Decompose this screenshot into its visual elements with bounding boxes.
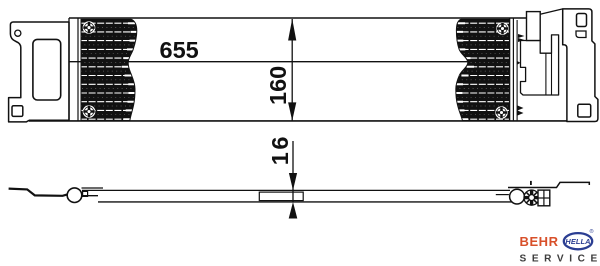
bar bottom edge: [98, 201, 512, 203]
right fin pack outline: [456, 19, 510, 120]
screw bottom-right: [496, 107, 507, 118]
tank inner line: [545, 53, 547, 95]
left fin pack: [80, 19, 138, 122]
grid block: [538, 190, 550, 206]
wire top edge of core: [69, 17, 527, 19]
HELLA ellipse logo: [564, 233, 592, 249]
square hole in bracket: [12, 106, 23, 117]
left mounting bracket: [9, 22, 69, 122]
left end plate: [68, 18, 70, 121]
svg-text:®: ®: [590, 228, 594, 235]
left hook bracket: [9, 189, 69, 196]
small tab: [530, 181, 532, 185]
left fin edge scallops: [122, 23, 138, 119]
arrowhead down: [288, 102, 296, 120]
bar top edge: [82, 189, 510, 191]
weld mark top: [518, 34, 525, 42]
svg-text:BEHR: BEHR: [520, 234, 559, 249]
slot hole: [576, 31, 586, 38]
right plain circle: [510, 189, 525, 204]
left grommet circle: [67, 188, 82, 203]
top square hole: [577, 14, 587, 27]
svg-text:16: 16: [267, 134, 293, 165]
wire diagonal to bracket: [540, 9, 563, 14]
svg-text:SERVICE: SERVICE: [520, 254, 600, 265]
arrowhead down to bar: [289, 173, 297, 190]
big cutout in bracket: [33, 39, 61, 100]
right end plate: [509, 18, 511, 121]
wire middle line of core: [69, 61, 510, 63]
weld mark bottom: [518, 106, 524, 116]
right patterned circle: [524, 190, 539, 205]
arrowhead up: [288, 19, 296, 41]
right fin pack: [453, 19, 511, 122]
top fitting block: [527, 12, 541, 41]
screw top-right: [497, 23, 508, 34]
left fin pack outline: [81, 19, 137, 120]
center clamp rect: [259, 192, 303, 201]
svg-text:655: 655: [160, 37, 199, 63]
bottom square hole: [578, 104, 591, 117]
weld mark mid: [517, 61, 521, 65]
left fitting bits: [82, 187, 104, 189]
svg-text:160: 160: [265, 66, 291, 105]
dimension 16 line: [292, 141, 294, 202]
right top bracket line: [508, 182, 589, 187]
right tank body: [521, 35, 559, 95]
arrowhead up to bar: [289, 202, 298, 219]
tank inner line 2: [551, 53, 553, 95]
right mounting bracket: [563, 9, 598, 122]
right fin edge scallops: [455, 23, 474, 119]
screw top-left: [83, 22, 94, 33]
round hole in bracket: [15, 30, 21, 36]
short line under bar: [496, 194, 509, 196]
svg-text:HELLA: HELLA: [565, 237, 590, 246]
wire bottom edge of core: [29, 120, 570, 122]
screw bottom-left: [83, 106, 94, 117]
dimension 160 line: [291, 19, 293, 121]
